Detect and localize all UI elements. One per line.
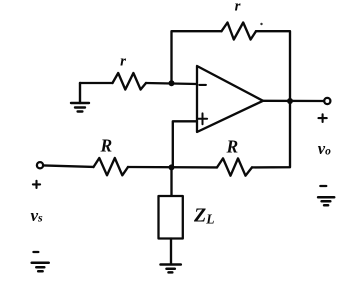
scan speck xyxy=(260,23,262,25)
svg-text:vo: vo xyxy=(318,139,331,158)
terminal: vs input xyxy=(37,162,43,168)
wire: resistor r to op-amp inverting input xyxy=(146,83,197,84)
op-amp U1 xyxy=(197,66,263,132)
svg-text:r: r xyxy=(120,54,126,70)
ground (ZL) xyxy=(161,265,181,273)
label + (vs) xyxy=(33,181,40,188)
wire: non-inverting input xyxy=(173,121,197,167)
svg-text:ZL: ZL xyxy=(193,205,214,227)
ground (vs) xyxy=(32,263,49,272)
wire: ground to resistor r xyxy=(80,82,113,84)
wire: ZL to ground xyxy=(170,239,172,265)
wire: op-amp output xyxy=(263,100,324,103)
wire: bottom node to ZL xyxy=(170,167,172,196)
resistor R (right) xyxy=(217,158,252,175)
resistor R (left) xyxy=(94,158,129,175)
ground (inverting input side) xyxy=(71,83,89,112)
resistor r (top feedback) xyxy=(222,23,257,40)
svg-text:R: R xyxy=(100,135,113,155)
terminal: vo output xyxy=(324,98,330,104)
svg-text:vs: vs xyxy=(31,206,44,225)
impedance ZL xyxy=(159,196,183,239)
svg-text:r: r xyxy=(235,0,241,15)
node: inverting input junction xyxy=(169,80,175,86)
wire: resistor R to output vertical xyxy=(252,101,290,167)
label - (output) xyxy=(320,185,326,187)
label + (output) xyxy=(319,114,327,122)
wire: vs terminal to resistor R xyxy=(43,165,93,167)
wire: top feedback left segment xyxy=(172,31,222,83)
node: bottom junction xyxy=(169,164,175,170)
label - (vs) xyxy=(33,251,38,253)
wire: resistor R to bottom node xyxy=(128,166,217,169)
svg-text:R: R xyxy=(226,136,239,156)
op-amp plus pin mark xyxy=(198,113,207,124)
wire: top feedback right segment down to output node xyxy=(256,31,290,101)
ground (vo) xyxy=(318,197,334,205)
node: output junction xyxy=(287,98,293,104)
resistor r (left) xyxy=(113,73,147,90)
op-amp minus pin mark xyxy=(199,84,206,86)
